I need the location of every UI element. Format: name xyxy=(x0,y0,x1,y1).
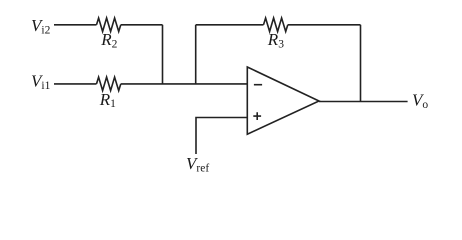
wire feedback vertical down to output xyxy=(360,25,362,102)
op-amp U1 xyxy=(247,67,319,134)
op-amp non-inverting input marker xyxy=(253,112,261,120)
svg-text:R3: R3 xyxy=(267,30,284,50)
wire Vi2 to R2 xyxy=(54,24,97,26)
wire feedback top to R3 xyxy=(196,24,264,26)
resistor R1 xyxy=(97,77,121,91)
wire feedback vertical up from inverting node xyxy=(195,25,197,84)
wire R1 to op-amp inverting input xyxy=(121,83,248,85)
wire R3 to output branch xyxy=(288,24,361,26)
svg-text:R2: R2 xyxy=(100,30,117,50)
svg-text:Vref: Vref xyxy=(186,154,209,174)
svg-text:R1: R1 xyxy=(99,90,116,110)
op-amp inverting input marker xyxy=(254,84,262,86)
wire R2 to node A xyxy=(121,24,163,26)
resistor R2 xyxy=(97,18,121,32)
resistor R3 xyxy=(264,18,288,32)
wire node A down to inverting line xyxy=(162,25,164,84)
wire Vi1 to R1 xyxy=(54,83,97,85)
wire output xyxy=(319,101,408,103)
wire op-amp non-inverting input xyxy=(196,118,247,155)
svg-text:Vi1: Vi1 xyxy=(31,72,51,92)
svg-text:Vo: Vo xyxy=(412,90,428,110)
svg-text:Vi2: Vi2 xyxy=(31,16,51,36)
